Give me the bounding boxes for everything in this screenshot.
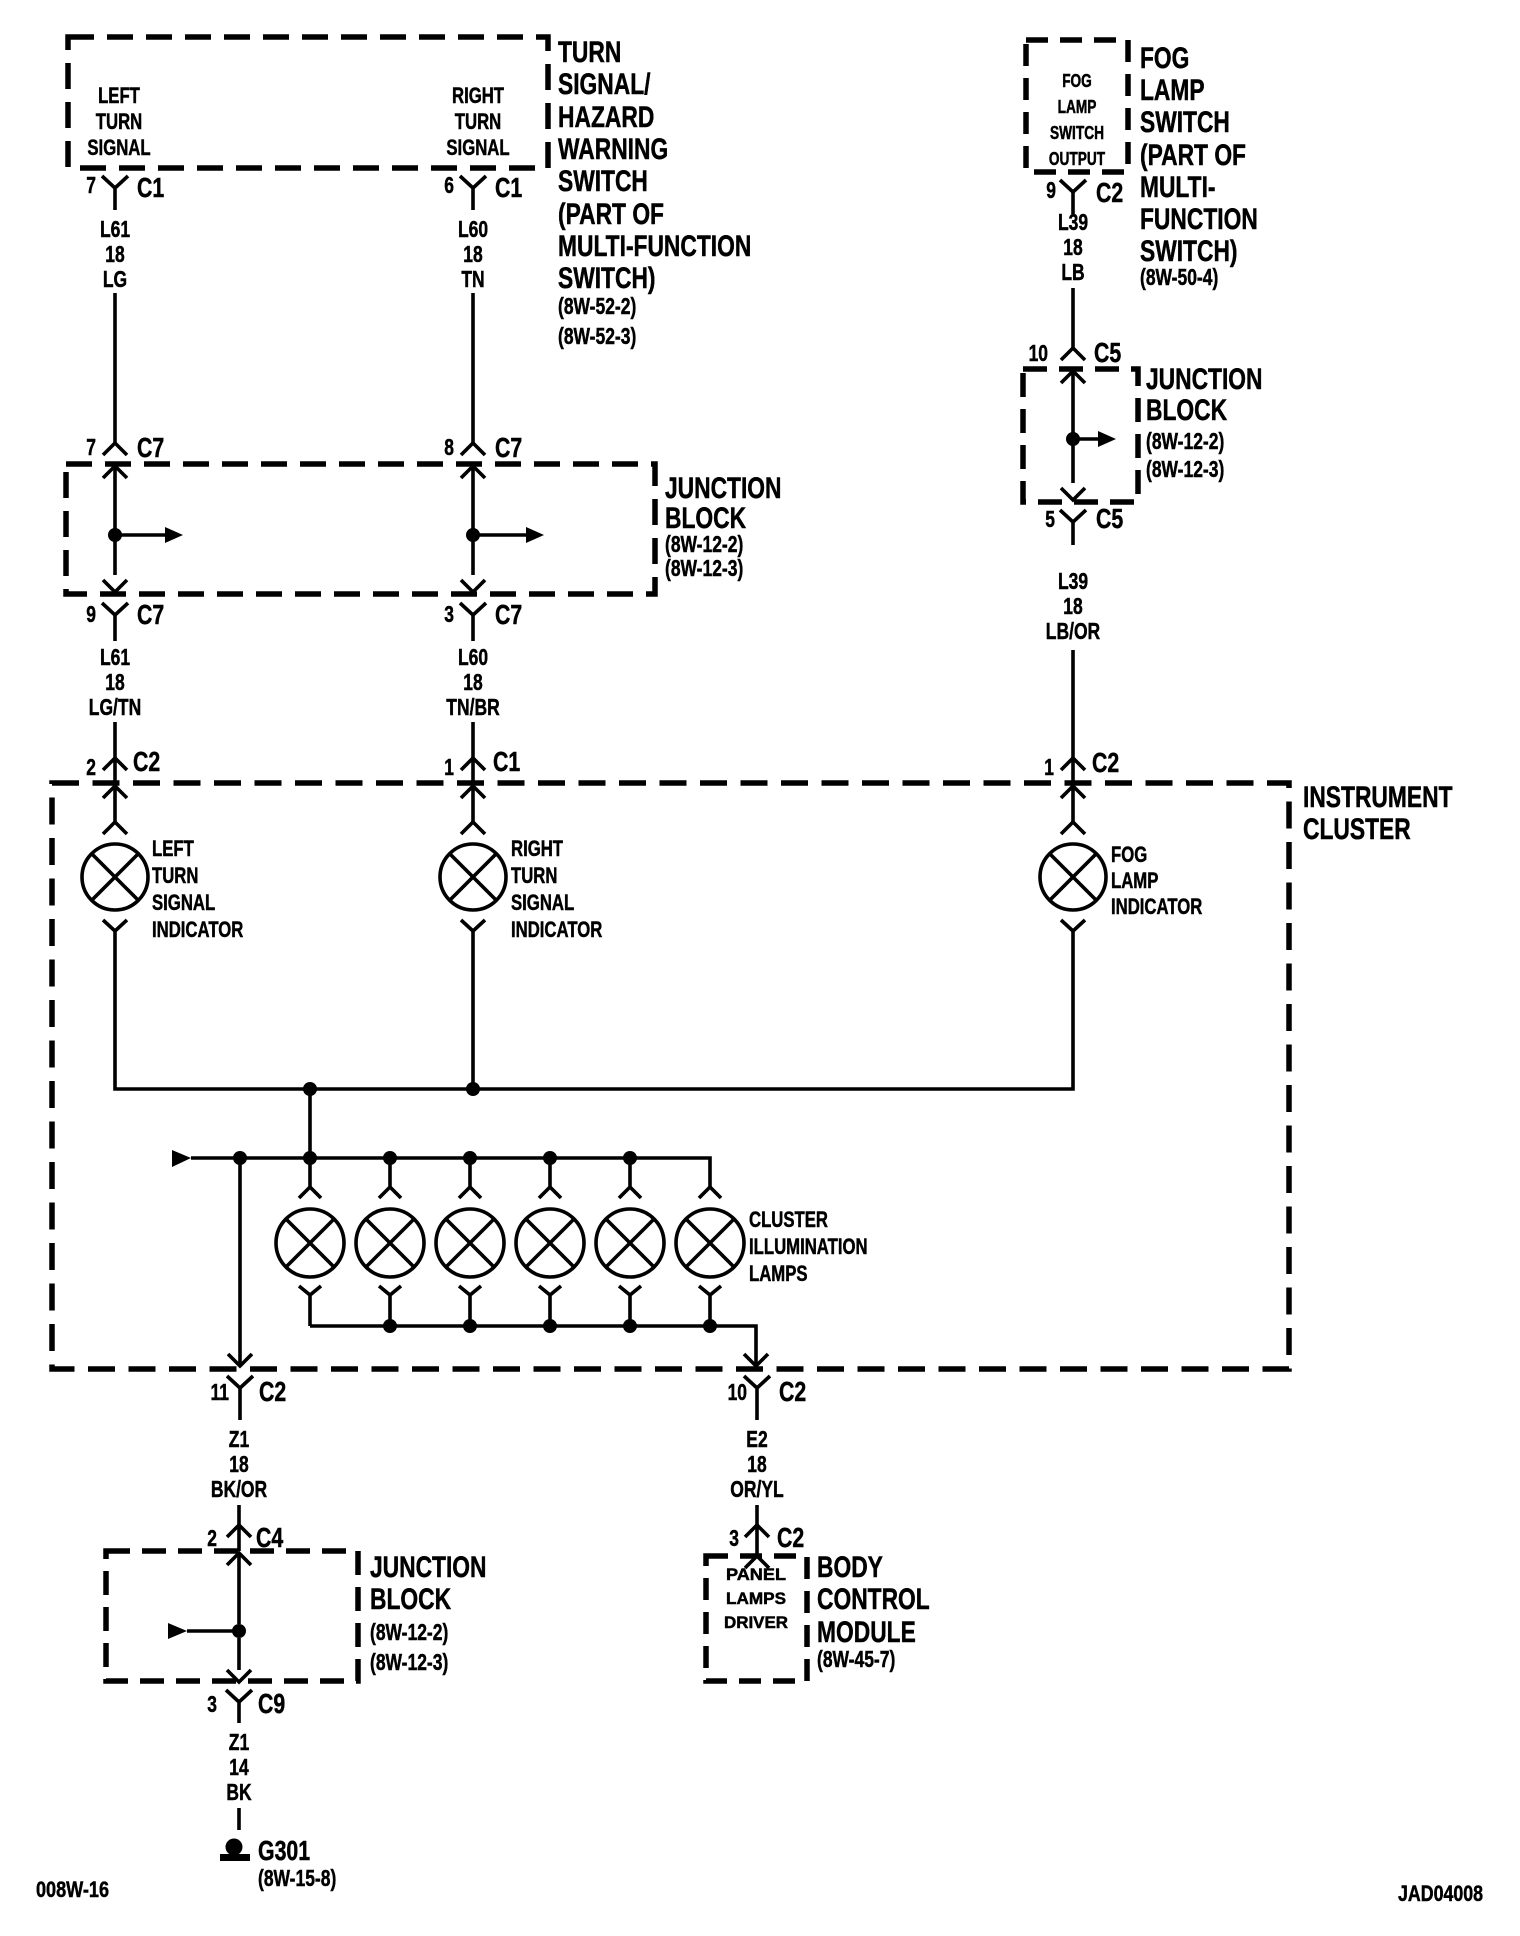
svg-text:5: 5 [1045,506,1055,532]
svg-text:INDICATOR: INDICATOR [511,917,602,942]
svg-text:SWITCH): SWITCH) [558,262,656,295]
svg-text:2: 2 [86,754,96,780]
svg-text:C7: C7 [137,599,164,630]
svg-text:Z1: Z1 [229,1426,250,1452]
right turn indicator lamp terminal top [461,822,485,834]
lamp fog lamp indicator [1040,844,1106,910]
svg-text:C5: C5 [1096,503,1123,534]
wire arrow into panel lamps driver [745,1556,769,1568]
lamp left turn signal indicator [82,844,148,910]
splice dot return bus lamp 2 [383,1319,397,1333]
svg-text:(8W-12-2): (8W-12-2) [370,1619,448,1645]
lamp right turn signal indicator [440,844,506,910]
wire arrow into junction block (wire B) [461,466,485,575]
svg-text:C5: C5 [1094,337,1121,368]
splice dot feed bus lamp 1 [303,1151,317,1165]
wire L60 TN/BR segment [471,722,475,758]
svg-text:TURN: TURN [455,109,501,134]
svg-text:LAMP: LAMP [1140,74,1205,107]
svg-text:JAD04008: JAD04008 [1398,1881,1483,1906]
splice dot return bus lamp 3 [463,1319,477,1333]
wire arrow out of fog junction block [1061,488,1085,500]
svg-text:C7: C7 [137,432,164,463]
connector C2 pin 2 (male chevron into cluster) [103,758,127,786]
cluster illumination lamp 4 [539,1158,561,1198]
svg-text:TN: TN [461,266,484,292]
svg-text:(8W-12-3): (8W-12-3) [665,555,743,581]
svg-text:LG: LG [103,266,127,292]
svg-text:C1: C1 [137,172,164,203]
svg-text:(PART OF: (PART OF [1140,139,1246,172]
svg-text:C2: C2 [1096,177,1123,208]
connector C2 pin 10 (female Y) [744,1376,770,1420]
svg-text:C2: C2 [1092,747,1119,778]
wire Z1 BK/OR segment [237,1505,241,1525]
svg-text:LB/OR: LB/OR [1046,618,1101,644]
svg-text:18: 18 [105,669,125,695]
left turn indicator lamp terminal bottom [103,920,127,947]
instrument cluster box [52,783,1289,1369]
wire arrow into bottom junction block [227,1553,251,1624]
svg-text:(8W-52-2): (8W-52-2) [558,293,636,319]
feed arrow from left (bottom junction block) [168,1623,187,1639]
svg-text:(PART OF: (PART OF [558,198,664,231]
svg-text:LEFT: LEFT [152,836,194,861]
svg-text:9: 9 [86,601,96,627]
svg-text:18: 18 [229,1451,249,1477]
connector C1 pin 7 (female Y) [102,176,128,210]
feed arrow right (junction block left, wire A) [115,533,165,537]
wire Z1 BK segment [237,1808,241,1830]
wire arrow into junction block (left wire A) [103,466,127,575]
svg-text:(8W-15-8): (8W-15-8) [258,1865,336,1891]
svg-text:C4: C4 [256,1522,284,1553]
svg-text:L39: L39 [1058,568,1088,594]
svg-text:LAMPS: LAMPS [726,1589,786,1608]
svg-text:INDICATOR: INDICATOR [1111,894,1202,919]
svg-text:(8W-45-7): (8W-45-7) [817,1646,895,1672]
svg-text:C1: C1 [493,746,520,777]
svg-text:L61: L61 [100,644,130,670]
wire E2 OR/YL segment [755,1505,759,1525]
splice dot feed bus lamp 3 [463,1151,477,1165]
svg-text:18: 18 [1063,234,1083,260]
svg-text:14: 14 [229,1754,249,1780]
svg-text:JUNCTION: JUNCTION [1146,363,1263,396]
connector C9 pin 3 (female Y) [226,1690,252,1723]
svg-text:BODY: BODY [817,1551,883,1584]
svg-text:(8W-12-3): (8W-12-3) [370,1649,448,1675]
svg-text:INSTRUMENT: INSTRUMENT [1303,781,1453,814]
svg-text:MODULE: MODULE [817,1616,916,1649]
svg-text:(8W-52-3): (8W-52-3) [558,323,636,349]
svg-text:BK/OR: BK/OR [211,1476,268,1502]
cluster illumination lamp 3 [459,1158,481,1198]
svg-text:C1: C1 [495,172,522,203]
splice dot feed bus to ground branch [233,1151,247,1165]
svg-text:3: 3 [729,1525,739,1551]
svg-text:LAMP: LAMP [1058,97,1097,117]
svg-text:10: 10 [728,1379,747,1405]
svg-text:SWITCH: SWITCH [1050,123,1104,143]
svg-text:(8W-12-2): (8W-12-2) [665,531,743,557]
svg-text:L60: L60 [458,216,488,242]
wire arrow into junction block (fog wire) [1061,371,1085,483]
wire L61 LG/TN segment [113,722,117,758]
svg-text:CLUSTER: CLUSTER [749,1207,828,1232]
svg-text:2: 2 [207,1525,217,1551]
svg-text:TURN: TURN [511,863,557,888]
svg-text:L60: L60 [458,644,488,670]
cluster illumination lamp 1 [299,1158,321,1198]
svg-text:SIGNAL: SIGNAL [87,135,150,160]
svg-text:6: 6 [444,172,454,198]
junction block box (left) [66,464,655,594]
svg-text:3: 3 [444,601,454,627]
svg-text:LG/TN: LG/TN [89,694,141,720]
svg-text:G301: G301 [258,1835,310,1866]
svg-text:LAMP: LAMP [1111,868,1158,893]
splice dot B in junction block [466,528,480,542]
svg-text:SIGNAL: SIGNAL [152,890,215,915]
svg-text:18: 18 [105,241,125,267]
svg-text:18: 18 [463,241,483,267]
svg-text:FOG: FOG [1062,71,1092,91]
illumination feed bus with left arrow [172,1150,191,1167]
svg-text:L39: L39 [1058,209,1088,235]
connector C7 pin 8 (male chevron) [461,443,485,455]
junction block box (right) [1023,369,1138,502]
connector C2 pin 1 (male chevron into cluster) [1061,758,1085,786]
svg-text:1: 1 [1044,754,1054,780]
wire arrow into instrument cluster (wire A) [103,786,127,822]
svg-text:9: 9 [1046,177,1056,203]
svg-text:MULTI-FUNCTION: MULTI-FUNCTION [558,230,751,263]
svg-text:SWITCH: SWITCH [1140,106,1230,139]
svg-text:PANEL: PANEL [726,1565,786,1584]
svg-text:JUNCTION: JUNCTION [370,1551,487,1584]
wire branch from return bus to illumination feed bus [308,1089,312,1158]
feed arrow right (fog junction block) [1073,437,1098,441]
svg-text:18: 18 [1063,593,1083,619]
svg-text:3: 3 [207,1691,217,1717]
svg-text:10: 10 [1029,340,1048,366]
splice dot on lamp return bus at right lamp [466,1082,480,1096]
cluster illumination lamp 2 [379,1158,401,1198]
svg-text:HAZARD: HAZARD [558,101,654,134]
svg-text:(8W-12-3): (8W-12-3) [1146,456,1224,482]
ground G301 [226,1839,243,1856]
wire L60 segment (switch to junction block) [471,293,475,443]
svg-text:8: 8 [444,434,454,460]
junction block box (bottom) [106,1551,358,1681]
connector C2 pin 11 (female Y) [227,1376,253,1420]
svg-text:FOG: FOG [1111,842,1147,867]
right turn indicator lamp terminal bottom [461,920,485,947]
wire arrow into instrument cluster (fog wire) [1061,786,1085,822]
svg-text:C2: C2 [779,1376,806,1407]
svg-text:SIGNAL: SIGNAL [446,135,509,160]
svg-text:1: 1 [444,754,454,780]
svg-text:C2: C2 [777,1522,804,1553]
splice dot return bus lamp 5 [623,1319,637,1333]
svg-text:INDICATOR: INDICATOR [152,917,243,942]
connector C2 pin 3 (male chevron, body control module) [745,1525,769,1556]
wire from left lamp to ground bus [115,947,1073,1089]
svg-text:BLOCK: BLOCK [1146,394,1227,427]
splice dot A in junction block [108,528,122,542]
connector C1 pin 1 (male chevron into cluster) [461,758,485,786]
panel lamps driver box [706,1556,807,1681]
wire from right lamp to ground bus [471,947,475,1089]
wire ground branch down with arrow out of cluster [228,1158,252,1366]
turn signal / hazard warning switch box [68,37,548,168]
svg-text:L61: L61 [100,216,130,242]
svg-text:OUTPUT: OUTPUT [1049,149,1105,169]
connector C5 pin 10 (male chevron) [1061,348,1085,360]
wire arrow out of junction block (left wire A) [103,580,127,592]
svg-text:11: 11 [211,1379,230,1405]
svg-text:DRIVER: DRIVER [724,1613,788,1632]
splice dot feed bus lamp 5 [623,1151,637,1165]
cluster illumination lamp 6 [699,1187,721,1198]
splice dot in bottom junction block [232,1624,246,1638]
wire L39 LB/OR segment [1071,650,1075,758]
svg-text:CONTROL: CONTROL [817,1583,930,1616]
connector C2 pin 9 (female Y, fog lamp switch) [1060,180,1086,214]
cluster illumination lamp 5 [619,1158,641,1198]
svg-text:LEFT: LEFT [98,83,140,108]
wire arrow out of cluster (panel lamps driver) [744,1354,768,1366]
svg-text:C7: C7 [495,432,522,463]
svg-text:TURN: TURN [96,109,142,134]
svg-text:7: 7 [86,172,96,198]
svg-text:MULTI-: MULTI- [1140,171,1216,204]
svg-text:7: 7 [86,434,96,460]
svg-text:OR/YL: OR/YL [730,1476,783,1502]
connector C5 pin 5 (female Y) [1060,510,1086,545]
splice dot feed bus lamp 4 [543,1151,557,1165]
svg-text:JUNCTION: JUNCTION [665,472,782,505]
svg-text:C2: C2 [133,746,160,777]
svg-text:18: 18 [463,669,483,695]
connector C7 pin 7 (male chevron) [103,443,127,455]
wire arrow out of bottom junction block [227,1638,251,1682]
svg-text:008W-16: 008W-16 [36,1877,109,1902]
feed arrow right (junction block, wire B) [473,533,526,537]
fog lamp switch output box [1026,40,1128,172]
fog lamp indicator terminal bottom [1061,920,1085,947]
svg-text:C9: C9 [258,1688,285,1719]
svg-text:C7: C7 [495,599,522,630]
svg-text:FUNCTION: FUNCTION [1140,203,1258,236]
svg-text:E2: E2 [746,1426,767,1452]
svg-text:CLUSTER: CLUSTER [1303,813,1411,846]
svg-text:BLOCK: BLOCK [370,1583,451,1616]
wire arrow out of junction block (wire B) [461,580,485,592]
svg-text:LB: LB [1061,259,1084,285]
svg-text:ILLUMINATION: ILLUMINATION [749,1234,868,1259]
svg-text:RIGHT: RIGHT [452,83,504,108]
wire arrow into instrument cluster (wire B) [461,786,485,822]
svg-text:WARNING: WARNING [558,133,668,166]
svg-text:Z1: Z1 [229,1729,250,1755]
fog lamp indicator terminal top [1061,822,1085,834]
splice dot feed bus lamp 2 [383,1151,397,1165]
splice dot return bus lamp 4 [543,1319,557,1333]
splice dot on lamp return bus at branch [303,1082,317,1096]
svg-text:C2: C2 [259,1376,286,1407]
svg-text:(8W-50-4): (8W-50-4) [1140,264,1218,290]
connector C7 pin 9 (female Y) [102,603,128,641]
svg-text:TN/BR: TN/BR [446,694,500,720]
svg-text:SIGNAL: SIGNAL [511,890,574,915]
svg-text:LAMPS: LAMPS [749,1261,808,1286]
svg-text:TURN: TURN [152,863,198,888]
svg-text:BK: BK [226,1779,251,1805]
wire L39 LB segment [1071,288,1075,348]
left turn indicator lamp terminal top [103,822,127,834]
svg-text:18: 18 [747,1451,767,1477]
connector C4 pin 2 (male chevron) [227,1525,251,1551]
svg-text:(8W-12-2): (8W-12-2) [1146,428,1224,454]
splice dot return bus lamp 6 [703,1319,717,1333]
splice dot in fog junction block [1066,432,1080,446]
svg-text:TURN: TURN [558,36,621,69]
wire L61 segment (switch to junction block) [113,293,117,443]
svg-text:SIGNAL/: SIGNAL/ [558,68,651,101]
svg-text:FOG: FOG [1140,42,1189,75]
connector C7 pin 3 (female Y) [460,603,486,641]
svg-text:SWITCH: SWITCH [558,165,648,198]
svg-text:RIGHT: RIGHT [511,836,563,861]
connector C1 pin 6 (female Y) [460,176,486,210]
illumination return bus [310,1326,756,1364]
